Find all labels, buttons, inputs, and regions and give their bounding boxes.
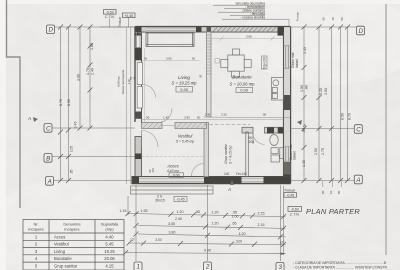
left dim chain inner — [89, 27, 91, 128]
vestibul/living door opening — [158, 109, 172, 123]
callout leader — [265, 19, 289, 26]
svg-text:3.45: 3.45 — [74, 122, 78, 129]
bottom ticks — [123, 211, 286, 255]
svg-text:- CATEGORIA DE IMPORTANTA ....: - CATEGORIA DE IMPORTANTA ..............… — [293, 261, 386, 265]
svg-text:3.20: 3.20 — [221, 113, 227, 117]
svg-text:50: 50 — [322, 17, 326, 21]
section mark A left — [27, 116, 38, 122]
top left level leaders — [100, 18, 135, 27]
svg-text:S = 19,25 mp: S = 19,25 mp — [171, 81, 197, 86]
column top-right corner — [278, 27, 285, 36]
window in top wall left (living) — [146, 27, 196, 31]
bottom wall window fer140 — [242, 179, 264, 181]
section mark A bottom — [227, 180, 234, 192]
svg-text:A: A — [47, 178, 52, 185]
left dim chain 8.70 — [60, 27, 62, 181]
svg-text:50: 50 — [340, 17, 344, 21]
kitchen counter — [272, 78, 284, 101]
gs partition wall vertical — [246, 132, 249, 177]
exterior steps bottom — [131, 186, 214, 194]
column interior wall top — [207, 27, 212, 36]
bottom wall dark segment mid — [204, 177, 242, 184]
grid line A left — [52, 180, 131, 182]
top wall hatch right section — [213, 27, 276, 32]
column grid2 top wall — [196, 27, 202, 32]
ctn label bottom right — [288, 207, 302, 212]
bottom wall dark segment left — [132, 177, 140, 184]
small fixture box — [215, 59, 220, 64]
svg-text:3.95: 3.95 — [184, 116, 190, 120]
section mark A right — [297, 120, 306, 128]
gs north wall right segment — [265, 127, 284, 133]
svg-text:batant: batant — [295, 59, 299, 68]
svg-text:1.80: 1.80 — [90, 43, 94, 50]
svg-text:(mp): (mp) — [105, 227, 114, 232]
svg-text:3.00: 3.00 — [77, 74, 81, 81]
+045 label top — [123, 13, 136, 18]
svg-text:210: 210 — [151, 167, 155, 172]
svg-text:90: 90 — [192, 57, 196, 61]
svg-text:2.15: 2.15 — [258, 223, 265, 227]
grid bubble A right — [354, 175, 362, 184]
svg-text:50: 50 — [337, 190, 341, 194]
interior wall top block — [204, 123, 209, 130]
svg-text:D: D — [48, 27, 53, 34]
svg-text:2.40: 2.40 — [175, 217, 182, 221]
bottom right extension stubs — [322, 181, 324, 187]
left wall pier block 2 — [135, 112, 142, 119]
svg-text:12°: 12° — [130, 238, 136, 242]
svg-text:Vestibul: Vestibul — [178, 134, 194, 139]
svg-text:PLAN PARTER: PLAN PARTER — [306, 207, 360, 216]
svg-text:-0,45: -0,45 — [176, 198, 184, 202]
svg-text:1.00: 1.00 — [232, 214, 239, 218]
svg-text:Bucatarie: Bucatarie — [232, 74, 252, 79]
living terrace door leaf upper — [137, 63, 142, 85]
svg-text:3.80: 3.80 — [169, 230, 176, 234]
svg-text:Grup sanitar: Grup sanitar — [224, 143, 228, 164]
svg-text:C.T.N.: C.T.N. — [290, 213, 300, 217]
svg-text:1.30: 1.30 — [302, 160, 306, 167]
svg-text:.80: .80 — [305, 85, 309, 90]
grid bubble 1 bottom — [134, 262, 142, 270]
svg-text:+0,45: +0,45 — [124, 14, 133, 18]
svg-text:0,00: 0,00 — [240, 88, 249, 93]
svg-text:Acces: Acces — [54, 234, 65, 239]
bottom dim row4 — [126, 253, 286, 254]
svg-text:1.45: 1.45 — [303, 47, 307, 54]
svg-text:1: 1 — [136, 264, 139, 270]
terasa strip line inner — [130, 27, 132, 184]
svg-text:A: A — [355, 177, 360, 184]
grid bubble C left — [44, 124, 52, 133]
svg-text:6,60 mp: 6,60 mp — [117, 76, 121, 87]
svg-text:0,00: 0,00 — [180, 87, 189, 92]
left wall window upper — [135, 32, 142, 47]
bottom wall acces glazing — [139, 179, 204, 181]
right wall window lower (geam mat) — [284, 147, 291, 161]
svg-text:Living: Living — [54, 249, 66, 254]
svg-text:2.75: 2.75 — [321, 148, 325, 155]
grid bubble D left — [47, 25, 55, 34]
svg-text:Trotuar: Trotuar — [296, 12, 300, 22]
svg-text:Trotuar: Trotuar — [118, 16, 122, 27]
svg-text:90: 90 — [197, 116, 201, 120]
svg-text:140: 140 — [224, 172, 230, 176]
living terrace door leaf lower — [137, 87, 142, 109]
wc toilet oval — [270, 135, 278, 146]
svg-text:batant: batant — [293, 151, 297, 160]
svg-text:3.60: 3.60 — [246, 35, 252, 39]
top wall outer line — [135, 26, 291, 28]
left dim chain segments — [79, 27, 81, 128]
gs north wall left segment — [242, 127, 253, 133]
svg-text:Terasa neacoperita: Terasa neacoperita — [121, 69, 125, 94]
column top-left corner — [135, 27, 142, 36]
svg-text:C: C — [356, 126, 361, 133]
left dim chain 8.50 — [68, 27, 70, 181]
svg-text:1.20: 1.20 — [212, 211, 219, 215]
bottom extension lines — [135, 185, 137, 261]
bottom dim row1 — [128, 214, 286, 217]
svg-text:19.25: 19.25 — [104, 249, 115, 254]
svg-text:- vopsea lavabila: - vopsea lavabila — [240, 16, 265, 20]
svg-text:9.00: 9.00 — [204, 249, 211, 253]
left ticks — [58, 25, 93, 184]
svg-text:2.15: 2.15 — [258, 211, 265, 215]
bottom dim row3b — [129, 243, 286, 245]
right wall — [290, 27, 292, 184]
svg-text:20.06: 20.06 — [104, 256, 115, 261]
svg-text:2.50: 2.50 — [314, 148, 318, 155]
grid bubble 3 bottom — [276, 263, 284, 270]
top wall inner line — [142, 31, 284, 33]
wall layers callout underlines — [213, 5, 289, 26]
svg-text:A: A — [27, 116, 31, 121]
svg-text:1.15: 1.15 — [120, 209, 127, 213]
svg-text:4.20: 4.20 — [239, 232, 246, 236]
grid bubble C right — [354, 125, 362, 134]
wall layers callout text — [236, 2, 266, 20]
svg-text:.85: .85 — [70, 169, 74, 174]
left wall pier block — [135, 48, 142, 61]
bottom wall dark segment right — [264, 177, 291, 184]
svg-text:1.50: 1.50 — [300, 85, 304, 92]
svg-text:3.50: 3.50 — [324, 88, 328, 95]
svg-text:S = 20,06 mp: S = 20,06 mp — [229, 82, 255, 87]
dining table — [221, 49, 251, 77]
wc radiator — [280, 148, 283, 159]
right wall pier mid — [284, 95, 291, 110]
svg-text:3.00: 3.00 — [155, 238, 161, 242]
bottom dim row2 — [138, 226, 286, 229]
svg-text:3.55: 3.55 — [168, 222, 175, 226]
svg-text:2.40: 2.40 — [91, 68, 95, 75]
svg-text:50: 50 — [321, 190, 325, 194]
svg-text:1.20: 1.20 — [177, 210, 184, 214]
svg-text:0,00: 0,00 — [173, 174, 180, 178]
svg-text:B: B — [46, 155, 50, 162]
right wall bottom corner column — [284, 175, 291, 184]
grid bubble B left — [44, 154, 52, 163]
svg-text:2: 2 — [205, 264, 210, 270]
svg-text:1.95: 1.95 — [141, 209, 148, 213]
svg-text:Vestibul: Vestibul — [54, 242, 69, 247]
grid line A right — [291, 180, 355, 182]
interior wall B row block — [204, 154, 209, 159]
svg-text:3.00: 3.00 — [236, 240, 242, 244]
wc sink rect — [271, 155, 279, 162]
top wall band fill — [135, 27, 291, 31]
svg-text:Acces: Acces — [166, 164, 179, 169]
svg-text:3: 3 — [278, 264, 282, 270]
ctn label top left — [104, 10, 117, 15]
svg-text:5.45: 5.45 — [105, 242, 114, 247]
bucatarie south dim line — [204, 116, 291, 119]
right wall window upper (geam mat) — [284, 46, 291, 68]
svg-text:4.40: 4.40 — [105, 234, 114, 239]
svg-text:200: 200 — [249, 140, 255, 144]
left wall double line — [134, 27, 136, 122]
svg-text:.55: .55 — [195, 210, 200, 214]
svg-text:8.70: 8.70 — [348, 113, 352, 120]
living window dim labels — [142, 60, 200, 62]
window sill projection rect below top wall — [146, 33, 194, 47]
svg-text:.90: .90 — [262, 113, 267, 117]
interior wall living/bucatarie — [207, 32, 212, 117]
grid line D left — [55, 26, 135, 28]
svg-text:5.25: 5.25 — [319, 88, 323, 95]
svg-text:4.15: 4.15 — [105, 264, 114, 269]
svg-text:1.05: 1.05 — [70, 146, 74, 152]
svg-text:-0,60: -0,60 — [291, 208, 299, 212]
fridge — [262, 56, 268, 69]
interior wall living/vestibul horizontal — [142, 123, 163, 129]
svg-text:8.50: 8.50 — [341, 113, 345, 120]
vestibul B row line — [142, 155, 205, 157]
svg-text:1.40: 1.40 — [205, 113, 211, 117]
vestibul entrance door arc — [142, 131, 159, 148]
svg-text:incapere: incapere — [28, 227, 44, 232]
interior wall acces/gs vertical lower — [204, 123, 209, 177]
svg-text:-0,45: -0,45 — [286, 194, 294, 198]
svg-text:3.00: 3.00 — [166, 57, 172, 61]
svg-text:1.70: 1.70 — [86, 68, 90, 75]
svg-text:A: A — [302, 123, 306, 128]
bottom dim row3 — [138, 234, 286, 237]
svg-text:- CLASA DE IMPORTANTA ........: - CLASA DE IMPORTANTA ..................… — [293, 265, 388, 269]
living interior extension line — [143, 48, 145, 122]
svg-text:Living: Living — [178, 75, 190, 80]
grid bubble 2 bottom — [204, 262, 212, 270]
svg-text:1.40: 1.40 — [163, 116, 169, 120]
svg-text:10: 10 — [329, 190, 333, 194]
svg-text:A: A — [227, 187, 231, 192]
right ticks — [302, 25, 351, 184]
gs door arc — [253, 133, 265, 145]
svg-text:Trotuar: Trotuar — [284, 188, 296, 192]
living terrace door opening arc — [143, 85, 156, 98]
terasa strip line outer — [125, 27, 127, 184]
svg-text:Fer.140: Fer.140 — [236, 172, 247, 176]
acces corridor door arc — [192, 164, 205, 177]
left wall lower segment (vestibul/acces) — [135, 137, 142, 177]
svg-text:30x15: 30x15 — [155, 199, 165, 203]
svg-text:.65: .65 — [232, 222, 237, 226]
svg-text:30: 30 — [199, 74, 203, 78]
svg-text:4,40 mp: 4,40 mp — [167, 169, 179, 173]
svg-text:8.50: 8.50 — [67, 99, 71, 106]
svg-text:-0,60: -0,60 — [106, 10, 114, 14]
svg-text:Bucatarie: Bucatarie — [54, 256, 72, 261]
grid line D right — [291, 26, 357, 28]
room table — [23, 220, 124, 270]
svg-text:40: 40 — [132, 76, 136, 80]
svg-text:Grup sanitar: Grup sanitar — [54, 264, 78, 269]
svg-text:D: D — [358, 28, 363, 35]
interior dim numbers — [146, 35, 267, 120]
svg-text:8.70: 8.70 — [59, 99, 63, 106]
interior wall bottom block — [204, 172, 209, 177]
svg-text:frig+100: frig+100 — [263, 57, 267, 69]
svg-text:.90: .90 — [302, 128, 306, 133]
interior dim line rooms — [142, 119, 284, 121]
grid bubble A left — [46, 177, 54, 186]
bottom wall — [132, 183, 291, 185]
bottom right notes — [293, 261, 388, 270]
right dim chains — [303, 27, 305, 181]
svg-text:S = 5,45 mp: S = 5,45 mp — [176, 140, 194, 144]
svg-text:S = 4,15 mp: S = 4,15 mp — [229, 146, 233, 164]
page fold edge artifact — [7, 0, 21, 208]
svg-text:12°: 12° — [280, 240, 286, 244]
svg-text:90: 90 — [146, 116, 150, 120]
gs north wall dark blocks — [267, 127, 274, 133]
grid line C left — [52, 127, 135, 129]
svg-text:1.20: 1.20 — [212, 221, 219, 225]
left wall B row block — [135, 154, 142, 160]
bucatarie window dim line — [212, 38, 284, 40]
sheet border right — [385, 4, 387, 255]
svg-text:10: 10 — [331, 17, 335, 21]
svg-text:incapere: incapere — [64, 227, 80, 232]
grid bubble D right — [357, 26, 365, 35]
svg-text:C: C — [46, 125, 51, 132]
svg-text:90: 90 — [144, 57, 148, 61]
bucatarie south dashed beam line — [204, 124, 250, 126]
wc bidet square — [271, 148, 278, 154]
grid line C right — [291, 128, 355, 130]
grid line B left — [49, 156, 135, 158]
